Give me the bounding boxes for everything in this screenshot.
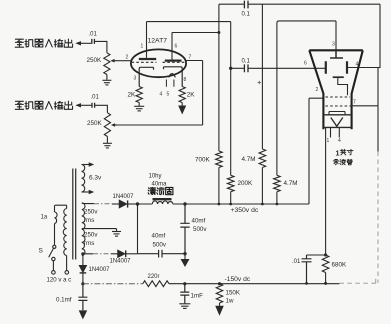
svg-text:S: S (39, 248, 44, 255)
wire top rail (219, 3, 380, 5)
tube V2 cathode bracket (329, 112, 345, 115)
capacitor C8 1mF (180, 284, 189, 304)
tube V2 horiz defl plates (326, 61, 347, 74)
tube V1 right plate (165, 33, 182, 61)
svg-text:1: 1 (336, 148, 340, 157)
ground 2K right (178, 103, 186, 115)
svg-text:680K: 680K (332, 261, 348, 268)
tube V2 top deflection plate (330, 50, 343, 58)
svg-text:2K: 2K (187, 92, 196, 99)
wire C4 coupling (231, 67, 326, 69)
wire D2 to C7 (138, 253, 159, 255)
wire -150 rail faint (83, 283, 143, 285)
svg-text:7: 7 (189, 55, 192, 61)
svg-text:2K: 2K (128, 92, 137, 99)
ground 2K left (134, 103, 144, 111)
transformer T1 primary (55, 205, 67, 255)
svg-text:+350v dc: +350v dc (231, 207, 259, 214)
ground C9 (79, 310, 88, 319)
capacitor C1 .01 (92, 39, 95, 44)
capacitor C6 40mf (180, 204, 189, 254)
svg-text:1N4007: 1N4007 (110, 259, 132, 265)
capacitor C3 0.1 top (244, 1, 248, 9)
svg-text:6: 6 (175, 44, 178, 50)
switch S (49, 245, 56, 270)
node stray mark (258, 81, 262, 85)
svg-text:1N4007: 1N4007 (113, 194, 135, 200)
svg-text:250v: 250v (84, 231, 98, 238)
wire -150 rail (169, 283, 339, 285)
wire HV center tap (82, 228, 117, 230)
capacitor C5 .01 (302, 255, 312, 284)
tube V1 heater stubs (166, 80, 174, 87)
potentiometer R2 250K (104, 113, 110, 137)
wire right return faint (377, 152, 379, 283)
svg-text:1: 1 (327, 138, 330, 144)
svg-text:250K: 250K (87, 57, 103, 64)
svg-text:0.1: 0.1 (242, 12, 251, 18)
wire 4.7M-b lower (276, 192, 278, 204)
wire B+ rail 350v (138, 203, 310, 205)
diode D3 1N4007 bias (79, 254, 86, 284)
terminal plug right (65, 271, 69, 275)
resistor 700K (216, 151, 223, 168)
svg-text:120 v a c: 120 v a c (47, 276, 72, 283)
wire right return upper (379, 4, 381, 68)
svg-text:250v: 250v (84, 209, 98, 216)
tube V1 right cathode (164, 67, 183, 87)
tube V2 cathode box (323, 115, 351, 128)
resistor 200K (227, 175, 234, 191)
wire C2 to pot R2 (95, 105, 108, 112)
svg-text:2: 2 (126, 55, 129, 61)
capacitor C2 .01 (92, 103, 95, 108)
wire wiper R2 to grid pin7 (118, 61, 203, 126)
node choke out (183, 202, 186, 205)
wire 700K line upper (218, 4, 220, 151)
wire HV bottom tap (82, 254, 93, 255)
node bias tap dot (81, 252, 84, 255)
wire 6.3v bottom arrow (82, 190, 95, 194)
wire HV bottom tap faint (93, 253, 111, 255)
wire 680K lower (325, 273, 327, 284)
wire 700K lower (218, 168, 220, 205)
node junction C4 (229, 67, 232, 70)
wire right return lower (377, 68, 379, 152)
svg-text:40mf: 40mf (152, 233, 166, 240)
diode D2 1N4007 bottom (118, 250, 138, 257)
wire right plate to 700K line (172, 32, 219, 34)
tube V1 left cathode (139, 67, 153, 86)
tube V2 step electrode (333, 77, 348, 95)
capacitor C4 0.1 (244, 64, 248, 72)
node 1mF dot (183, 282, 186, 285)
node input-2 label (15, 101, 72, 109)
node junction plate-700K (217, 31, 220, 34)
svg-text:1a: 1a (41, 215, 48, 221)
wire right defl plate return (347, 67, 380, 69)
svg-text:10hy: 10hy (149, 174, 162, 180)
wire left plate to node (147, 21, 231, 23)
svg-text:.01: .01 (89, 31, 98, 37)
svg-text:500v: 500v (153, 242, 167, 249)
tube V1 left plate (139, 22, 156, 59)
resistor 4.7M upper (259, 149, 266, 168)
transformer T1 primary bottom lead (66, 256, 68, 271)
wire CRT-top feed (277, 21, 336, 175)
tube V2 heater pins (331, 127, 340, 137)
potentiometer R2 wiper (111, 123, 118, 127)
svg-text:1mF: 1mF (191, 293, 204, 300)
svg-text:8: 8 (184, 77, 187, 83)
tube V1 left grid (132, 61, 157, 63)
transformer T1 HV winding (82, 203, 85, 256)
svg-text:1: 1 (141, 44, 144, 50)
wire C1 to pot R1 (94, 41, 107, 52)
svg-text:5: 5 (167, 92, 170, 98)
node input-1 label (15, 39, 72, 47)
ground pot R2 (103, 137, 112, 148)
wire HV top tap (82, 202, 94, 204)
wire input-2 arrow (75, 103, 91, 107)
choke core bar (153, 198, 172, 200)
ground C8 (179, 304, 190, 309)
node 150K dot (218, 282, 221, 285)
tube V2 CRT outline (309, 50, 363, 129)
resistor 680K (322, 255, 329, 273)
resistor 2K right (179, 87, 185, 103)
diode D1 1N4007 top (119, 200, 137, 207)
node -150 junction (81, 282, 84, 285)
tube V2 grid dashes (325, 97, 351, 106)
ground 150K (215, 303, 224, 316)
svg-text:2: 2 (316, 87, 319, 93)
wire input-1 arrow (75, 41, 91, 45)
svg-text:40mf: 40mf (192, 217, 206, 224)
wire 200K lower (230, 192, 232, 204)
resistor 220r (143, 281, 169, 287)
choke L1 label3 (148, 188, 173, 195)
svg-text:1N4007: 1N4007 (89, 267, 111, 273)
svg-text:rms: rms (84, 217, 94, 224)
tube V1 right grid (163, 61, 187, 63)
svg-text:200K: 200K (238, 180, 254, 187)
choke L1 (152, 201, 173, 204)
resistor 4.7M lower (274, 175, 281, 191)
wire -150 rail faint right (339, 278, 375, 283)
transformer T1 6.3v winding (82, 165, 85, 193)
wire D1 node down (137, 204, 139, 254)
wire bias node (307, 254, 326, 256)
potentiometer R1 wiper (110, 59, 117, 63)
svg-text:4: 4 (338, 138, 341, 144)
svg-text:3: 3 (332, 42, 335, 48)
svg-text:250K: 250K (87, 120, 103, 127)
node dots on rail (218, 203, 221, 206)
svg-text:500v: 500v (193, 226, 207, 233)
resistor 150K (216, 284, 222, 303)
wire neck electrode to return (352, 105, 378, 107)
wire 4.7M-a lower (261, 168, 263, 205)
resistor 2K left (136, 87, 142, 103)
svg-text:1w: 1w (226, 297, 234, 304)
wire HV bottom tap2 (111, 253, 118, 255)
ground C6 (181, 254, 190, 267)
svg-text:6.3v: 6.3v (89, 174, 102, 181)
svg-text:4.7M: 4.7M (284, 180, 298, 187)
ground pot R1 (102, 75, 111, 85)
tube V1 12AT7 envelope (131, 49, 186, 77)
svg-text:12AT7: 12AT7 (148, 37, 168, 44)
svg-text:4.7M: 4.7M (242, 156, 256, 163)
wire 6.3v top arrow (82, 162, 95, 166)
node bias dot (324, 253, 327, 256)
wire CRT cathode down (325, 127, 327, 255)
svg-text:40ma: 40ma (152, 182, 168, 188)
svg-text:.01: .01 (91, 95, 100, 101)
svg-text:rms: rms (84, 240, 94, 247)
svg-text:700K: 700K (195, 157, 211, 164)
transformer T1 core (73, 169, 76, 260)
svg-text:0.1mf: 0.1mf (56, 296, 72, 303)
node D1 junction (136, 202, 139, 205)
wire HV top tap faint (94, 203, 112, 205)
svg-text:3: 3 (134, 75, 137, 81)
capacitor C9 0.1mf (78, 284, 87, 311)
svg-text:4: 4 (356, 62, 359, 68)
ground center tap (112, 229, 121, 237)
terminal plug left (52, 271, 56, 275)
svg-text:220r: 220r (148, 274, 160, 280)
svg-text:0.1: 0.1 (242, 58, 251, 64)
tube V2 label line2 (333, 159, 352, 165)
wire 4.7M-a line (261, 4, 263, 149)
wire HV top tap2 (112, 203, 119, 205)
svg-text:7: 7 (353, 100, 356, 106)
fuse 1a (55, 205, 58, 244)
capacitor C7 40mf (159, 250, 185, 258)
svg-text:4: 4 (160, 92, 163, 98)
wire 200K line upper (230, 22, 232, 176)
svg-text:.01: .01 (292, 259, 301, 265)
svg-text:150K: 150K (226, 289, 241, 296)
tube V2 heater (331, 118, 343, 127)
node C6 bottom (183, 252, 186, 255)
svg-text:6: 6 (304, 61, 307, 67)
wire wiper R1 to grid pin2 (118, 60, 132, 62)
svg-text:-150v dc: -150v dc (225, 276, 251, 283)
potentiometer R1 250K (104, 53, 110, 75)
wire rail to CRT anode (309, 98, 323, 204)
